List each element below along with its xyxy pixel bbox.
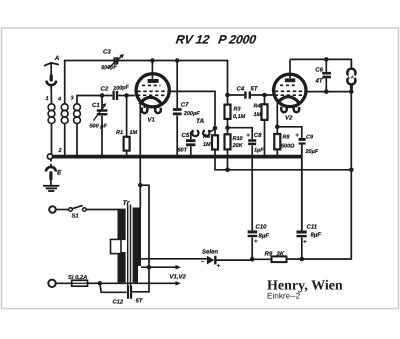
rectifier Selen: [141, 256, 253, 265]
svg-text:TA: TA: [196, 118, 204, 125]
node: C4 left junction: [225, 93, 230, 98]
svg-text:C2: C2: [101, 86, 109, 93]
svg-text:Einkre--2: Einkre--2: [267, 292, 301, 301]
svg-text:R10: R10: [233, 136, 243, 142]
resistor R4 1M: [262, 95, 268, 156]
node: heater rect top: [138, 183, 143, 188]
node: rail screen junction: [324, 89, 329, 94]
coil L3 (winding 3): [74, 104, 81, 124]
wire V1 screen line to TA: [170, 91, 215, 125]
capacitor C11 8uF: [297, 127, 307, 259]
svg-text:200pF: 200pF: [183, 111, 201, 117]
svg-text:1M: 1M: [130, 130, 138, 136]
wire B+ rail: [287, 87, 352, 259]
bus terminal ring: [47, 154, 52, 159]
svg-text:500pF: 500pF: [101, 64, 118, 71]
ground bus rail: [48, 155, 303, 159]
antenna plug jack: [47, 76, 57, 85]
svg-text:50T: 50T: [178, 148, 188, 154]
resistor R8 500ohm: [274, 127, 280, 156]
resistor R5 1M: [212, 128, 351, 170]
wire V2 anode line: [290, 59, 351, 68]
svg-text:R3: R3: [234, 107, 241, 113]
fuse Si 0,2A: [48, 280, 100, 287]
node: V2 cathode junction: [275, 125, 280, 130]
node: rail B+ junction: [349, 168, 354, 173]
Tr voltage tap box: [111, 239, 122, 253]
Tr primary winding: [118, 209, 126, 283]
capacitor C6 4T: [322, 59, 331, 91]
node: V2 grid junction: [262, 93, 267, 98]
capacitor C9 20uF: [277, 127, 305, 231]
capacitor C10 8uF: [248, 157, 258, 259]
svg-text:500 pF: 500 pF: [90, 124, 108, 130]
node: R10 B+ junction: [225, 168, 230, 173]
capacitor C7 200pF: [173, 61, 182, 156]
wire L3 bottom to bus: [76, 124, 78, 155]
node: C11 B+ junction: [300, 257, 305, 262]
svg-text:+: +: [217, 264, 221, 270]
svg-text:S1: S1: [72, 213, 79, 220]
svg-text:R5: R5: [203, 134, 211, 140]
capacitor C12 5T: [100, 283, 131, 299]
svg-text:500Ω: 500Ω: [281, 144, 295, 150]
ground E plug: [46, 159, 56, 185]
svg-text:1: 1: [46, 96, 49, 102]
capacitor C2 200pF: [114, 91, 135, 100]
resistor R10 20K: [225, 128, 231, 170]
svg-text:4T: 4T: [315, 78, 324, 85]
svg-text:C4: C4: [237, 86, 245, 93]
svg-text:C1: C1: [92, 102, 100, 109]
jack LA pair: [346, 59, 356, 88]
svg-text:+: +: [295, 133, 299, 139]
switch S1: [49, 205, 117, 212]
capacitor C5 50T: [186, 134, 195, 155]
svg-text:R4: R4: [254, 104, 261, 110]
node: C10 B+ junction: [250, 257, 255, 262]
svg-text:20K: 20K: [232, 143, 244, 149]
capacitor C8 1uF: [228, 128, 257, 156]
wire L3 top to grid line: [77, 96, 112, 105]
svg-text:20µF: 20µF: [305, 149, 319, 155]
coil L1 (winding 1): [48, 104, 55, 124]
svg-text:R9: R9: [265, 251, 273, 258]
Tr core: [128, 205, 131, 288]
capacitor C1 variable 500pF: [94, 96, 108, 156]
svg-text:V1,V2: V1,V2: [170, 274, 187, 281]
Tr secondary winding: [133, 208, 141, 283]
svg-text:R1: R1: [116, 130, 123, 136]
resistor R1 1M: [124, 96, 130, 156]
svg-text:C8: C8: [254, 132, 262, 139]
title RV 12 P 2000: [175, 33, 257, 47]
resistor R3 0,1M: [225, 95, 231, 128]
wire V1 cathode down: [139, 102, 141, 185]
coil L2 (winding 4): [61, 104, 68, 124]
svg-text:C9: C9: [306, 135, 314, 141]
node: anode top junction: [150, 58, 155, 63]
svg-text:+: +: [254, 239, 258, 245]
tube V1: [136, 61, 169, 114]
wire plug to coil L1: [50, 85, 52, 104]
wire heater loop: [132, 185, 149, 292]
svg-text:LA: LA: [348, 75, 354, 80]
svg-text:C11: C11: [307, 224, 318, 231]
svg-text:Si 0,2A: Si 0,2A: [68, 274, 87, 281]
svg-text:1M: 1M: [254, 112, 262, 118]
svg-text:8µF: 8µF: [311, 232, 322, 239]
node: grid junction C2/R1: [124, 93, 129, 98]
jack TA pair: [191, 129, 215, 137]
wire heater feed V1,V2: [100, 265, 181, 286]
svg-text:3: 3: [71, 96, 74, 102]
svg-text:Selen: Selen: [202, 249, 218, 256]
svg-text:C7: C7: [181, 101, 189, 108]
svg-text:C5: C5: [182, 132, 190, 139]
node: R3/R10/C8 junction: [225, 125, 230, 130]
svg-text:V1: V1: [148, 117, 156, 124]
svg-text:1M: 1M: [203, 142, 211, 148]
svg-text:A: A: [54, 55, 60, 62]
wire L2 bottom to bus: [64, 124, 66, 155]
svg-text:V2: V2: [285, 115, 293, 122]
node: heater/C12 junction: [147, 265, 152, 270]
capacitor C3 variable 500pF: [108, 54, 124, 68]
antenna A: [44, 63, 59, 76]
node: C7 top junction: [175, 58, 180, 63]
svg-text:2: 2: [58, 148, 62, 154]
svg-text:4: 4: [57, 96, 61, 102]
node: C6 top junction: [324, 57, 329, 62]
wire V2 cathode down: [276, 102, 278, 127]
node: fuse junction: [98, 281, 103, 286]
svg-text:8µF: 8µF: [259, 233, 270, 240]
tube V2: [274, 59, 306, 112]
svg-text:E: E: [57, 170, 62, 177]
capacitor C4 5T: [228, 92, 273, 99]
node: TA/R5 junction: [213, 126, 218, 131]
svg-text:C3: C3: [103, 49, 111, 56]
svg-text:5T: 5T: [136, 299, 143, 305]
ground symbol: [43, 186, 59, 191]
svg-text:R8: R8: [283, 135, 291, 141]
wire V2 screen to rail: [305, 91, 351, 93]
svg-text:P 2000: P 2000: [217, 33, 257, 47]
resistor R9 3K: [252, 256, 286, 262]
svg-text:3K: 3K: [277, 251, 285, 258]
wire C3 to anode junction: [117, 61, 227, 96]
svg-text:C6: C6: [315, 67, 323, 74]
svg-text:+: +: [246, 133, 250, 139]
wire L2 top to C3 line: [65, 61, 114, 105]
svg-text:1µF: 1µF: [254, 148, 264, 154]
svg-text:RV 12: RV 12: [175, 33, 211, 47]
wire L1 bottom to bus: [51, 124, 53, 155]
svg-text:0,1M: 0,1M: [233, 114, 246, 120]
svg-text:C12: C12: [113, 299, 124, 306]
svg-text:+: +: [303, 240, 307, 246]
svg-text:C10: C10: [256, 224, 268, 231]
